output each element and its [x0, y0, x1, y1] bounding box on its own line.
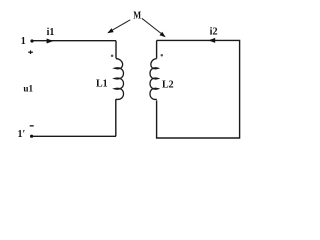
svg-text:u1: u1 — [23, 84, 33, 94]
svg-text:M: M — [133, 11, 141, 22]
svg-text:1′: 1′ — [18, 129, 26, 140]
svg-text:L2: L2 — [162, 79, 174, 90]
svg-text:1: 1 — [21, 36, 26, 47]
svg-text:i1: i1 — [47, 27, 55, 38]
svg-text:i2: i2 — [210, 26, 218, 37]
svg-text:L1: L1 — [96, 78, 108, 89]
